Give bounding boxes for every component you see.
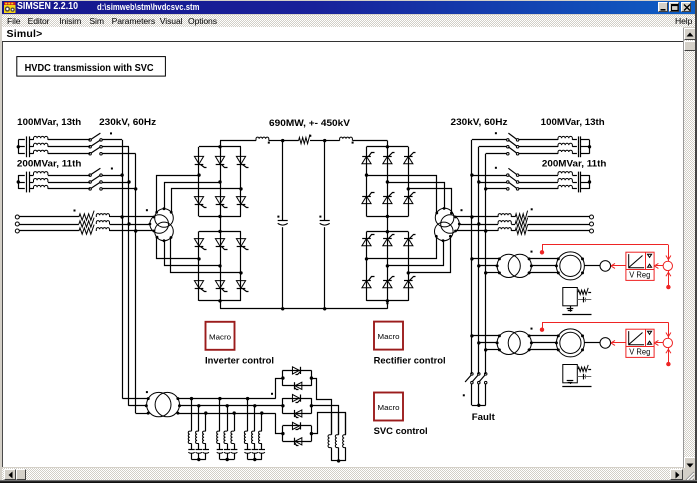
machine group 2 wires to generator [529,335,558,337]
right filter 11th branch 2 wire from bus [479,182,507,184]
right bus 1 [471,140,473,374]
marker near left bank1 breaker [110,132,112,134]
machine group 1 generator inner circle [560,255,581,276]
dc capacitor C1 lead2 [282,227,284,309]
title texts [17,1,78,12]
svc filter g1 branch 2 wire [198,406,200,431]
rectifier upper thyristor row-a col2 [383,156,392,163]
right filter 11th branch 1 inductor [558,172,572,175]
minimize button [658,2,669,12]
rectifier lower column 3 upper segment [408,232,410,273]
svc feeder bend 3 [136,413,149,415]
tcr pair3 right lead [312,413,346,435]
wire bus to left transformer a [122,216,154,218]
dc smoothing inductor L1 [256,137,269,141]
right filter 13th branch 1 breaker [507,139,510,142]
svc filter g1 branch 1 capacitor [191,444,193,450]
machine group 2 shaft mass circle [600,338,611,349]
marker right of T2 [461,209,463,211]
machine group 2 red summing circle [663,338,672,347]
inverter lower bridge top rail [199,231,241,233]
rectifier upper thyristor row-b col2 [383,196,392,203]
rectifier lower midtap lead 3 [409,237,451,273]
left filter 11th branch 2 inductor [34,179,48,183]
right source terminal 1 [590,215,594,219]
right filter 13th branch 2 capacitor [578,143,580,150]
rectifier lower midtap dot col3 [407,271,410,274]
rectifier upper midtap lead 3 [409,189,452,213]
left filter 13th branch 1 breaker [89,139,92,142]
inverter upper thyristor row-b col1 [194,197,203,205]
vertical scrollbar [683,28,695,480]
right source inductor 3 [498,228,511,231]
machine group 2 red bottom line [668,348,670,365]
rectifier upper column 1 upper segment [366,147,368,175]
machine group 2 VReg limit triangles [648,331,652,334]
left source resistor 2 [79,218,94,228]
Simul command row [2,27,683,40]
machine group 2 shaft line [584,342,600,344]
svg-text:Fault: Fault [472,412,496,423]
dc wire4 [325,140,340,142]
svc filter g3 branch 3 tap dot [260,411,263,414]
right filter 11th branch 1 wire [519,175,558,177]
fault breaker 3 [484,373,487,376]
junction left bus 1 / bank2 [120,173,123,176]
svc filter g3 branch 1 wire [247,399,249,432]
machine group 1 red bottom dot [666,285,670,289]
rectifier upper bottom rail [367,216,409,218]
right source terminal 2 [590,222,594,226]
inverter upper column 1 upper segment [198,147,200,175]
svc filter g2 branch 2 inductor [224,431,227,443]
rectifier lower thyristor row-a col1 [362,238,371,245]
left source inductor 2 [96,221,109,224]
machine group 2 wire a [472,335,500,337]
left source resistor 1 [79,211,94,221]
svc filter g3 branch 2 inductor [252,431,255,443]
right source wire mid 3 [511,230,515,232]
junction right bus 3 / gen1 [484,271,487,274]
svc filter g3 branch 3 wire [261,413,263,431]
svc transformer circle 1 [147,392,171,416]
fault wire 2 [478,384,480,405]
rectifier upper thyristor row-b col3 [404,196,413,203]
inverter lower column 2 upper segment [220,231,222,266]
rectifier lower bottom rail [367,300,409,302]
junction right bus 3 / source [484,229,487,232]
machine group 2 transformer dots [498,334,501,337]
T1 delta lead 3 to inverter midtap [171,238,241,273]
svc filter g3 branch 2 tap dot [253,404,256,407]
machine group 2 step-up transformer circle 1 [497,331,520,354]
svg-text:230kV, 60Hz: 230kV, 60Hz [451,117,508,128]
right filter 11th branch 2 breaker [507,181,510,184]
machine group 1 ground line [562,314,591,316]
rectifier lower thyristor row-b col2 [383,280,392,287]
svc filter g1 branch 1 tap dot [190,397,193,400]
rectifier lower midtap lead 1 [367,237,437,259]
marker near fault [463,394,465,396]
marker left of T1 [146,209,148,211]
svg-text:200MVar, 11th: 200MVar, 11th [542,159,607,170]
left filter 11th branch 2 wire to bus [102,182,129,184]
svc filter g2 branch 3 tap dot [233,411,236,414]
dc wire3 [310,140,325,142]
svg-text:200MVar, 11th: 200MVar, 11th [17,159,82,170]
left filter bank 11th tie bar [18,175,20,189]
svg-text:HVDC transmission with SVC: HVDC transmission with SVC [25,63,154,74]
machine group 2 ground line [562,386,591,388]
right source inductor 2 [498,221,511,224]
left source wire 2 [19,224,79,226]
rectifier control macro box [374,322,403,350]
left source resistor 3 [79,225,94,235]
T2 connection dots [435,212,438,215]
right filter 13th branch 2 wire from bus [479,146,507,148]
right filter 13th branch 3 wire from bus [486,153,507,155]
rectifier upper column 2 lower segment [387,182,389,216]
rectifier upper column 3 lower segment [408,189,410,217]
inverter lower thyristor row-a col2 [215,239,224,247]
svg-text:Macro: Macro [209,332,231,341]
left filter 13th branch 3 wire to bus [102,153,135,155]
rectifier lower thyristor row-a col2 [383,238,392,245]
machine group 1 VReg limit triangles [648,254,652,257]
svc filter g3 branch 3 capacitor [261,444,263,450]
junction left bus 2 / bank2 [127,180,130,183]
inverter dc stub top [220,141,222,147]
machine group 1 generator outer circle [556,252,584,280]
maximize button [669,2,680,12]
left filter 11th branch 3 capacitor [18,188,25,190]
left source wire 3 [19,230,79,232]
schematic title box [17,57,166,77]
svg-text:Rectifier control: Rectifier control [374,356,446,367]
svc filter g2 rail [220,459,234,461]
horizontal scrollbar [2,468,683,480]
dc capacitor C1 [278,220,288,222]
rectifier upper column 1 lower segment [366,175,368,216]
left filter 13th branch 3 inductor [34,150,48,153]
machine group 1 anchor [570,306,572,312]
inverter lower midtap dot col3 [239,271,242,274]
svc transformer dots [147,397,150,400]
right filter 13th branch 1 wire from bus [472,139,507,141]
dc capacitor C2 lead [324,141,326,221]
inverter lower column 2 lower segment [220,266,222,301]
right converter transformer T2 wye circle [435,208,454,227]
svc feeder bend 1 [123,398,149,400]
svc filter g2 branch 3 inductor [231,431,234,443]
marker near right bank1 breaker [495,132,497,134]
svc filter g2 branch 1 capacitor [219,444,221,450]
inverter upper midtap dot col1 [197,173,200,176]
right filter 11th branch 3 capacitor [578,185,580,192]
right source resistor 3 [515,225,527,235]
svc filter g1 branch 1 wire [191,399,193,432]
rectifier dc stub top [387,141,389,147]
machine group 2 VReg outer box [626,329,654,357]
left converter transformer T1 wye circle [155,209,174,228]
wire bus to left transformer c [136,230,154,232]
right filter 13th branch 1 capacitor [578,136,580,143]
right filter bank 11th tie bar [589,175,591,189]
rectifier lower thyristor row-b col1 [362,280,371,287]
rectifier upper midtap lead 1 [367,176,437,213]
machine group 2 spring [578,365,588,372]
machine group 1 red arrow vreg to machine [612,265,626,267]
scrollbar corner with resize grip [683,468,695,480]
marker near right bank2 breaker [495,167,497,169]
machine group 1 generator dots [557,257,560,260]
wire bus to left transformer b [129,224,150,226]
machine group 2 marker [531,328,533,330]
svc filter g3 branch 1 inductor [244,431,247,443]
right filter 13th branch 1 inductor [558,136,572,140]
T1 delta lead 2 to inverter midtap [165,241,221,266]
right filter 13th branch 2 wire [519,146,558,148]
machine group 2 wire c [486,349,500,351]
marker near tcr [271,393,273,395]
machine group 2 generator dots [557,334,560,337]
dc wire [269,140,283,142]
left filter 11th branch 3 breaker [89,188,92,191]
left filter 13th branch 1 wire to bus [102,139,122,141]
machine group 2 red drop line [668,322,670,338]
svg-text:690MW, +- 450kV: 690MW, +- 450kV [269,118,351,129]
junction right bus 1 / source [470,215,473,218]
right source terminal 3 [590,229,594,233]
inverter dc stub bottom [220,301,222,309]
wire T2 to bus b [459,224,479,226]
tcr pair 3 thyristor fwd [292,422,299,429]
right filter bank 13th tie bar [589,140,591,154]
svc filter g2 branch 2 wire [227,406,229,431]
fault breaker 1 [471,373,474,376]
right filter 11th branch 1 wire from bus [472,175,507,177]
marker near left bank2 breaker [111,168,113,170]
inverter control macro box [206,322,235,350]
left filter 13th branch 1 capacitor [18,139,25,141]
machine group 1 red arrow circle to vreg [656,265,663,267]
left bus 3 [135,154,137,413]
fault common rail [472,405,486,407]
window title bar [2,1,695,14]
tcr reactor 3 [345,413,347,435]
machine group 1 wire c [486,272,500,274]
rectifier upper midtap dot col1 [365,173,368,176]
left filter 13th branch 2 capacitor [18,146,25,148]
machine group 1 wire b [479,265,497,267]
svc filter g2 branch 3 wire [234,413,236,431]
inverter upper thyristor row-b col2 [215,197,224,205]
right bus 2 [478,147,480,374]
tcr reactor rail [331,460,346,462]
left filter 11th branch 1 inductor [34,172,48,175]
right filter 11th branch 2 inductor [558,179,572,183]
machine group 2 generator outer circle [556,329,584,357]
right filter 13th branch 3 breaker [507,152,510,155]
machine group 2 red up arrowhead [666,349,671,353]
svc filter g3 rail [248,459,262,461]
rectifier upper midtap dot col3 [407,187,410,190]
left bus 2 [128,147,130,406]
tcr pair 3 frame [283,425,312,427]
tcr reactor 1 [331,413,333,435]
rectifier upper column 3 upper segment [408,147,410,189]
svc filter g3 branch 3 inductor [259,431,262,443]
tcr pair 3 thyristor rev [295,438,302,445]
rectifier upper thyristor row-b col1 [362,196,371,203]
right source wire end 1 [528,216,590,218]
dc capacitor C1 lead [282,141,284,221]
machine group 2 red arrow circle to vreg [656,342,663,344]
rectifier lower midtap dot col2 [386,264,389,267]
marker near svc transformer [146,391,148,393]
machine group 1 spring [578,288,588,295]
T1 connection dots [152,216,155,219]
inverter lower thyristor row-b col2 [215,281,224,289]
junction right bus 3 / bank2 [484,187,487,190]
junction right bus 1 / gen1 [470,257,473,260]
dc bottom rail [220,308,387,310]
fault wire 3 [485,384,487,405]
svc filter g1 branch 3 tap dot [204,411,207,414]
tcr pair 1 frame [283,370,312,372]
svg-text:V Reg: V Reg [629,271,650,280]
svc filter g1 branch 2 inductor [196,431,199,443]
junction right bus 2 / gen1 [477,264,480,267]
right converter transformer T2 primary circle [441,215,460,234]
left filter 11th branch 2 breaker [89,181,92,184]
machine group 1 damper [577,299,591,301]
svc filter g3 branch 2 capacitor [254,444,256,450]
machine group 1 shaft mass circle [600,261,611,272]
inverter lower column 3 upper segment [240,231,242,273]
T1 wye lead 1 to inverter midtap [157,176,199,213]
junction right bus 1 / bank2 [470,173,473,176]
right filter 11th branch 3 breaker [507,188,510,191]
left filter 13th branch 1 inductor [34,136,48,140]
inverter upper bottom rail [199,216,241,218]
svc filter g2 branch 1 tap dot [218,397,221,400]
right filter 13th branch 2 breaker [507,146,510,149]
junction left bus 1 / source [120,215,123,218]
machine group 1 red drop line [668,245,670,261]
fault breaker 2 [478,373,481,376]
svg-text:230kV, 60Hz: 230kV, 60Hz [99,117,156,128]
left source terminal 2 [15,222,19,226]
left filter 13th branch 2 inductor [34,143,48,146]
left source inductor 3 [96,228,109,231]
inverter lower column 3 lower segment [240,273,242,301]
inverter upper thyristor row-b col3 [236,197,245,205]
svg-text:100MVar, 13th: 100MVar, 13th [17,117,81,128]
right filter 11th branch 2 capacitor [578,179,580,186]
left filter 13th branch 2 breaker [89,146,92,149]
right filter 11th branch 1 capacitor [578,172,580,179]
machine group 2 VReg divider [645,329,647,346]
machine group 1 red sense dot [540,250,544,254]
rectifier upper midtap lead 2 [388,183,445,209]
machine group 2 red bottom dot [666,362,670,366]
T1 wye lead 3 to inverter midtap [172,189,241,213]
svc phase line b [180,405,283,407]
machine group 2 wire b [479,342,497,344]
inverter upper bridge top rail [199,146,241,148]
left filter 11th branch 1 wire to bus [102,175,122,177]
rectifier lower midtap lead 2 [388,241,444,266]
left converter transformer T1 primary circle [150,215,169,234]
machine group 1 red summing circle [663,261,672,270]
junction right bus 2 / gen2 [477,341,480,344]
inverter upper thyristor row-a col3 [236,156,245,164]
junction left bus 3 / bank2 [134,187,137,190]
junction right bus 1 / gen2 [470,334,473,337]
left filter 11th branch 1 breaker [89,174,92,177]
left filter 13th branch 3 capacitor [18,153,25,155]
dc smoothing inductor L2 [340,137,353,141]
machine group 1 red bottom line [668,271,670,288]
rectifier upper column 2 upper segment [387,147,389,182]
machine group 1 wire a [472,258,500,260]
left bus 1 [122,140,124,399]
svc control macro box [374,393,403,421]
marker above left source resistor [74,210,76,212]
right source wire 3 [486,230,498,232]
rectifier lower midtap dot col1 [365,257,368,260]
right source wire 2 [479,224,498,226]
dc line right segment [353,140,388,142]
right source wire mid 2 [511,224,515,226]
machine group 2 anchor [570,383,572,384]
machine group 2 VReg transfer graph [629,331,644,345]
svc filter g1 branch 3 inductor [203,431,206,443]
tcr pair 1 thyristor fwd [292,367,299,374]
inverter upper thyristor row-a col2 [215,156,224,164]
machine group 2 damper [577,376,591,378]
junction right bus 3 / gen2 [484,348,487,351]
tcr pair1 left lead [276,379,283,399]
inverter lower midtap dot col1 [197,257,200,260]
machine group 1 transformer dots [498,257,501,260]
svc feeder bend 2 [129,405,147,407]
dc line left segment [220,140,256,142]
left source terminal 3 [15,229,19,233]
machine group 2 red down arrowhead [666,333,671,337]
machine group 1 red down arrowhead [666,256,671,260]
svc filter g3 branch 1 capacitor [247,444,249,450]
rectifier lower bridge top rail [367,231,409,233]
inverter lower thyristor row-b col3 [236,281,245,289]
machine group 2 red top line [542,322,668,324]
svc filter g1 branch 2 capacitor [198,444,200,450]
marker above right source [531,208,533,210]
machine group 1 turbine mass box [563,288,578,306]
inverter upper column 2 lower segment [220,182,222,216]
inverter lower column 1 upper segment [198,231,200,259]
junction right bus 2 / bank2 [477,180,480,183]
junction left bus 3 / source [134,229,137,232]
rectifier lower column 1 upper segment [366,232,368,259]
svc phase line a [178,398,276,400]
junction left bus 2 / source [127,222,130,225]
right source wire mid 1 [511,216,515,218]
tcr pair 2 thyristor fwd [292,395,299,402]
right source wire end 3 [528,230,590,232]
tcr pair3 left lead [276,414,283,434]
